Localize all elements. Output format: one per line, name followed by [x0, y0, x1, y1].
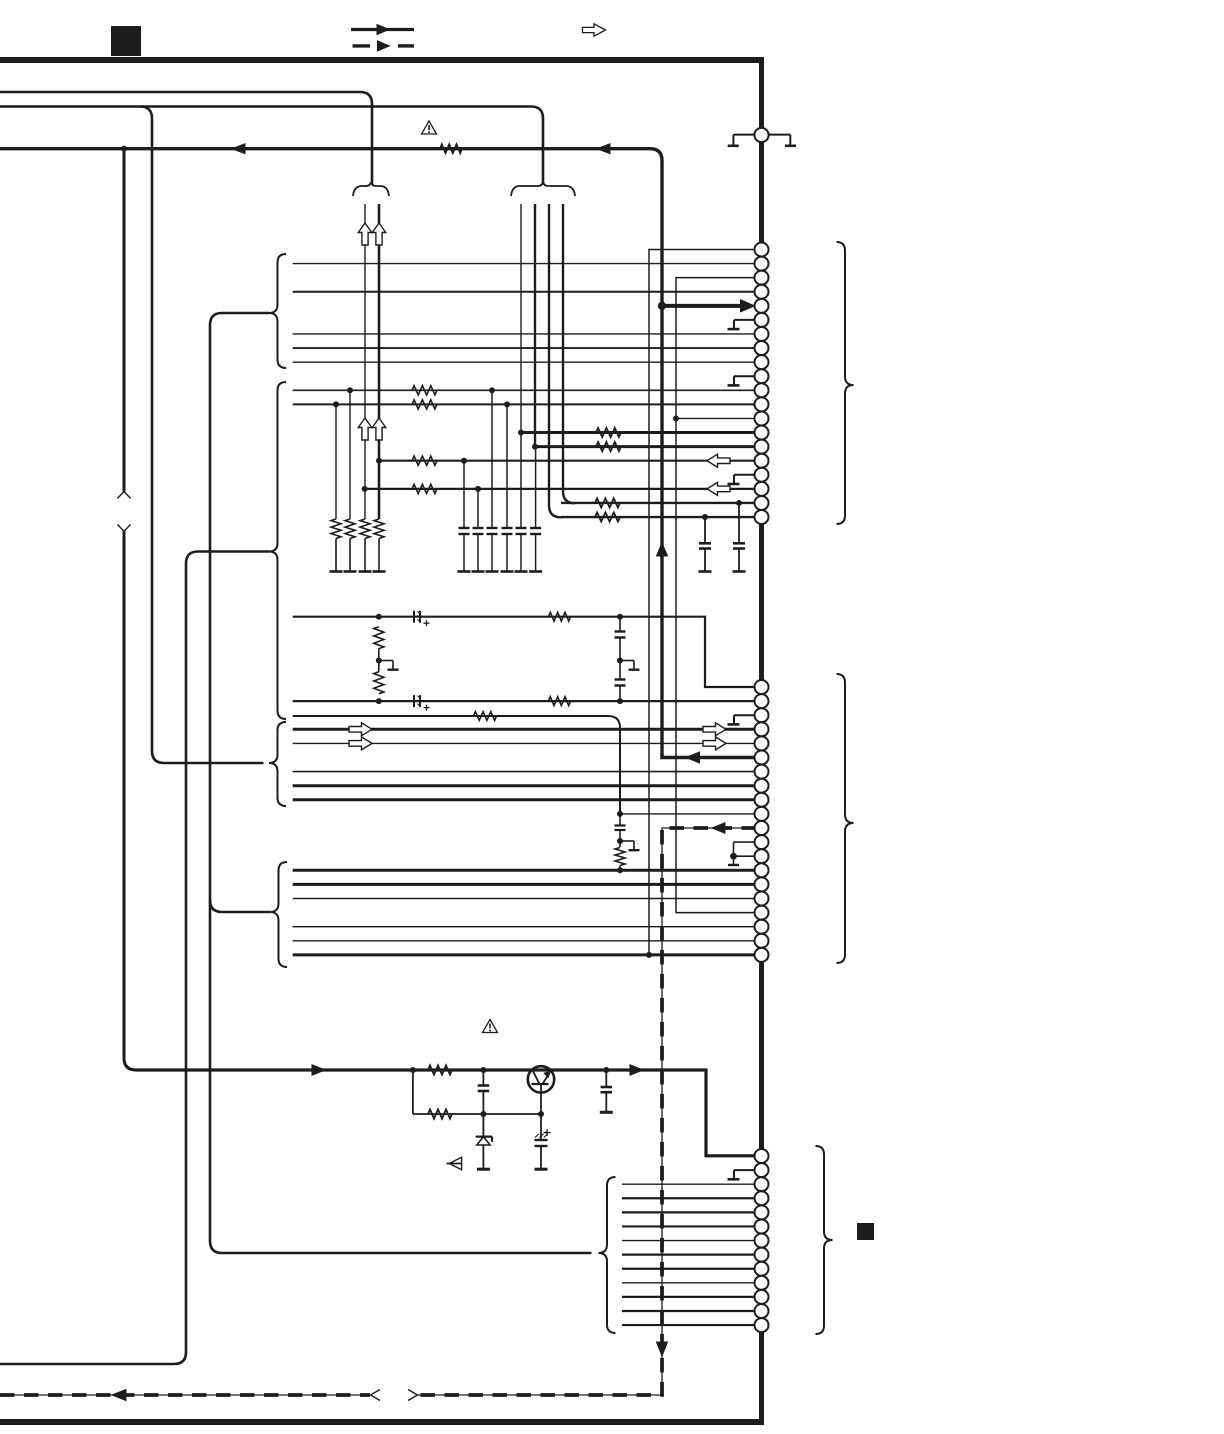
- connector pin on border top-right: [754, 128, 768, 142]
- arrowhead left on supply line (inner): [597, 144, 610, 154]
- capacitor bank C4: [506, 404, 508, 528]
- junction dots audio line 2: [376, 698, 382, 704]
- resistor audio line 2: [549, 697, 571, 706]
- wire top pin12: [293, 403, 756, 405]
- capacitor on ground drop: [619, 814, 621, 826]
- wire audio line 2: [293, 700, 756, 702]
- wire middle pin18: [293, 926, 756, 928]
- wire top pin19: [561, 502, 756, 504]
- resistor on top pin11 line: [412, 386, 437, 395]
- arrowhead right after transistor: [630, 1065, 643, 1076]
- resistor on supply line: [440, 144, 462, 153]
- junction dot middle pin13 stub: [730, 853, 737, 860]
- wire resistor-bank drop 2: [349, 390, 351, 519]
- wire top pin5 thick with arrow: [662, 304, 744, 308]
- bundle split fan A: [353, 182, 389, 196]
- resistor bank R3: [360, 519, 370, 539]
- open arrow left on top pin16 line: [707, 454, 730, 467]
- wire bottom pin13: [622, 1324, 756, 1326]
- wire fan A line 2 (to resistor bank): [378, 204, 381, 519]
- resistor bank R1: [331, 519, 341, 539]
- arrowhead left on supply line (outer): [232, 144, 245, 154]
- wire break mark upper: [117, 492, 124, 499]
- wire top pin14: [521, 431, 756, 434]
- arrowhead right on regulator feed: [312, 1065, 325, 1076]
- wire bottom pin7: [622, 1240, 756, 1242]
- wire ground drop end: [619, 866, 621, 871]
- wire vertical feed lower segment: [124, 531, 136, 1070]
- wire middle pin7: [293, 771, 756, 773]
- right brace middle connector: [837, 674, 854, 963]
- capacitor bank C6: [535, 447, 537, 528]
- border top thick line: [0, 57, 764, 63]
- wire audio line 3 (to ground drop): [293, 716, 620, 815]
- wire fan B line 1: [520, 204, 522, 433]
- wire top pin20: [561, 516, 756, 518]
- connector CN-middle pins 1-20: [755, 680, 769, 694]
- wire VCC-B from left edge: [0, 107, 543, 185]
- wire ground drop mid: [619, 830, 621, 847]
- black square legend mark: [111, 26, 141, 56]
- junction dot ground drop upper: [617, 811, 623, 817]
- resistor on top pin14 line: [596, 428, 621, 437]
- wire middle pin5 with open arrows: [293, 742, 756, 744]
- open arrow right on middle pin5 line (right): [703, 737, 726, 750]
- capacitor bank C2: [477, 489, 479, 528]
- resistor divider chain: [374, 627, 384, 649]
- wire top pin3 right-angle: [676, 278, 756, 913]
- junction dot top pin14 line: [518, 430, 524, 436]
- step symbol ground drop: [620, 840, 634, 842]
- wire bottom pin12: [622, 1310, 756, 1312]
- wire main supply line with arrows: [0, 149, 662, 754]
- zener diode D1: [482, 1114, 484, 1137]
- arrowhead up on audio bus: [657, 543, 668, 556]
- resistor on top pin19 line: [595, 498, 620, 507]
- wire link brace4 branch: [210, 900, 270, 912]
- left brace group 1: [269, 254, 286, 368]
- wire middle pin14: [293, 869, 756, 872]
- capacitor chain x620: [619, 617, 621, 632]
- junction dot ground drop mid: [617, 838, 623, 844]
- wire bottom pin10: [622, 1282, 756, 1284]
- warning triangle regulator: [483, 1020, 498, 1033]
- resistor on top pin18 line: [412, 484, 437, 493]
- bundle split fan B: [511, 182, 575, 196]
- legend dashed signal-path arrow: [353, 44, 371, 47]
- right brace bottom connector: [816, 1146, 833, 1334]
- resistor audio line 1: [549, 612, 571, 621]
- open arrow up 2nd on fan A line 2: [372, 418, 386, 440]
- open arrow right on middle pin4 line (right): [703, 723, 726, 736]
- junction dot cap chain mid: [617, 658, 623, 664]
- warning triangle near supply resistor: [422, 121, 437, 134]
- wire middle pin4 with open arrows: [293, 728, 756, 731]
- junction dot top pin15 line: [532, 444, 538, 450]
- junction dot top pin20 line: [702, 514, 708, 520]
- wire middle pin13 stub: [734, 855, 757, 857]
- wire top pin16: [379, 460, 756, 462]
- left brace group 4: [270, 862, 287, 967]
- resistor on top pin16 line: [412, 456, 437, 465]
- left brace group 3: [269, 722, 286, 806]
- capacitor regulator C3: [605, 1070, 607, 1087]
- wire bottom pin9: [622, 1268, 756, 1270]
- resistor ground drop: [615, 848, 625, 866]
- wire fan A line 1 (to resistor bank): [364, 204, 366, 519]
- wire middle pin15: [293, 883, 756, 886]
- step symbol top pin6: [734, 319, 757, 321]
- black square marker bottom: [857, 1223, 874, 1240]
- resistor regulator R2: [428, 1109, 452, 1118]
- dashed bus left segment with arrow: [0, 1394, 370, 1396]
- resistor on top pin12 line: [412, 400, 437, 409]
- wire VCC-A from left edge: [0, 92, 372, 184]
- capacitor bank C3: [491, 390, 493, 528]
- junction dots top pin16 line: [376, 458, 382, 464]
- junction dot middle pin20 line: [646, 952, 652, 958]
- wire audio line 1: [293, 617, 756, 687]
- wire top pin1 right-angle: [649, 250, 756, 957]
- open arrow up on fan A line 2: [372, 223, 386, 245]
- junction dot divider mid: [376, 658, 382, 664]
- wire bottom pin5: [622, 1211, 756, 1213]
- step symbol divider mid: [379, 660, 393, 662]
- step symbol bottom pin2: [734, 1169, 757, 1171]
- junction dots top pin11 line: [347, 387, 353, 393]
- wire top pin8: [293, 347, 756, 349]
- wire middle pin9: [293, 798, 756, 801]
- open arrow right on middle pin5 line (left): [349, 737, 372, 750]
- wire top pin15: [535, 445, 756, 448]
- wire top pin18: [365, 488, 756, 490]
- capacitor regulator C1: [482, 1070, 484, 1086]
- electrolytic capacitor C2: [540, 1114, 542, 1140]
- ground bar under middle pin13 stub: [733, 856, 735, 864]
- border bottom thick line: [0, 1419, 764, 1425]
- wire link brace2 to vertical: [0, 552, 269, 1365]
- small open triangle marker: [449, 1157, 461, 1169]
- resistor regulator R1: [428, 1065, 452, 1074]
- left brace group 2: [269, 382, 286, 719]
- resistor bank R2: [345, 519, 355, 539]
- junction dot on middle pin14 line: [617, 867, 623, 873]
- junction dot supply/vertical-feed: [121, 146, 127, 152]
- step symbol right of border pin: [769, 134, 790, 136]
- junction dot top pin13: [673, 415, 679, 421]
- open arrow left on top pin18 line: [707, 482, 730, 495]
- connector CN-bottom pins 1-13: [755, 1149, 769, 1163]
- step symbol left of border pin: [733, 134, 754, 136]
- junction dots top pin18 line: [362, 486, 368, 492]
- open arrow right on middle pin4 line (left): [349, 723, 372, 736]
- wire middle pin20: [293, 953, 756, 956]
- capacitor bank C5: [520, 433, 522, 528]
- wire fan B line 3: [549, 204, 561, 517]
- wire middle pin16: [293, 898, 756, 900]
- step symbol cap chain mid: [620, 660, 634, 662]
- wire link brace1 to vertical bus: [210, 313, 592, 1253]
- wire top pin9: [293, 361, 756, 363]
- transistor Q1: [528, 1066, 554, 1092]
- wire top pin2: [293, 263, 756, 265]
- junction dots regulator lower: [480, 1111, 486, 1117]
- capacitor C8 under pin19 line: [738, 503, 740, 543]
- wire bottom pin8: [622, 1254, 756, 1256]
- junction dots regulator line: [410, 1067, 416, 1073]
- step symbol top pin10: [734, 375, 757, 377]
- legend open arrow: [583, 24, 606, 36]
- right brace top connector: [837, 242, 854, 524]
- connector CN-top pins 1-20: [755, 243, 769, 257]
- wire middle pin12 flag: [734, 841, 757, 843]
- wire bottom pin11: [622, 1296, 756, 1298]
- wire fan B line 4: [563, 204, 575, 503]
- wire branch corner to left vertical bus: [140, 107, 264, 764]
- resistor on top pin20 line: [595, 512, 620, 521]
- dashed bus break marks: [371, 1390, 381, 1401]
- left brace bottom group: [599, 1177, 616, 1333]
- capacitor bank C1: [463, 461, 465, 528]
- wire middle pin8: [293, 784, 756, 787]
- wire break mark lower: [117, 524, 124, 531]
- junction dots top pin12 line: [333, 401, 339, 407]
- resistor on top pin15 line: [596, 442, 621, 451]
- border right thick line: [759, 57, 764, 1422]
- junction dot on bus for top pin5: [658, 302, 666, 310]
- wire bottom pin3: [622, 1183, 756, 1185]
- polarised capacitor audio 1: [413, 611, 415, 623]
- open arrow up 2nd on fan A line 1: [358, 418, 372, 440]
- wire bottom pin4: [622, 1197, 756, 1199]
- wire bottom pin6: [622, 1225, 756, 1227]
- step symbol middle pin3: [734, 714, 757, 716]
- open arrow up on fan A line 1: [358, 223, 372, 245]
- step symbol top pin17: [734, 474, 757, 476]
- resistor audio line 3: [474, 712, 497, 721]
- wire top pin13 from vertical: [676, 417, 756, 419]
- wire regulator feed: [136, 1070, 756, 1156]
- arrowhead down on dashed return: [657, 1342, 668, 1356]
- wire middle pin19: [293, 940, 756, 942]
- wire top pin11: [293, 389, 756, 391]
- junction dots audio line 1: [376, 614, 382, 620]
- polarised capacitor audio 2: [413, 695, 415, 707]
- wire middle pin6 solid return with arrow: [662, 754, 756, 758]
- wire top pin7: [293, 333, 756, 335]
- wire vertical feed upper segment: [123, 149, 126, 492]
- wire resistor-bank drop 1: [335, 404, 337, 519]
- capacitor C7 under pin20 line: [704, 517, 706, 543]
- wire middle pin10 stub: [620, 813, 756, 815]
- wire middle pin11 dashed with arrow: [418, 828, 756, 1395]
- wire top pin4: [293, 291, 756, 293]
- wire regulator lower branch: [412, 1070, 414, 1114]
- resistor bank R4: [374, 519, 384, 539]
- wire fan B line 2: [534, 204, 536, 447]
- junction dot top pin19 line: [736, 500, 742, 506]
- legend solid signal-path arrow: [351, 28, 414, 31]
